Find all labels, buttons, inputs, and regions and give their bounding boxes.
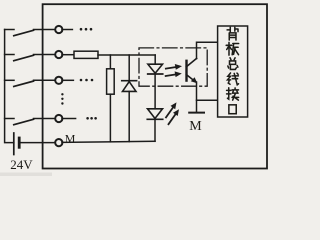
bottom return bus wire	[62, 141, 155, 142]
wire battery to M terminal	[19, 142, 54, 144]
battery 24V long plate	[13, 133, 15, 155]
battery 24V short plate	[18, 138, 21, 147]
diode D1 cathode bar	[122, 80, 137, 82]
indicator LED triangle	[148, 109, 163, 119]
wire S2 to terminal	[34, 54, 55, 56]
indicator emission arrow 2	[169, 109, 180, 124]
wire R1 to optocoupler	[98, 54, 155, 56]
wire row3 stub right	[62, 79, 73, 81]
diode D1 top lead	[128, 55, 130, 80]
svg-text:M: M	[65, 132, 76, 146]
wire row4 stub right	[62, 118, 76, 120]
left supply bus	[5, 30, 14, 143]
phototransistor emitter diagonal with arrow	[186, 75, 197, 84]
wire S4 to terminal	[34, 118, 55, 120]
resistor R2 (vertical) top lead	[109, 55, 111, 69]
wire terminal to resistor R1	[62, 54, 74, 56]
opto emission arrow 2	[166, 71, 182, 77]
glyph 背	[227, 27, 238, 40]
terminal circle row4	[55, 115, 62, 122]
emitter lead down	[196, 82, 198, 112]
wire S1 to terminal	[34, 29, 55, 31]
resistor R2 bottom lead	[109, 94, 111, 142]
terminal circle row3	[55, 77, 62, 84]
opto LED triangle	[148, 64, 163, 73]
backplane interface box	[218, 26, 248, 117]
terminal circle row2	[55, 51, 62, 58]
indicator LED cathode bar	[147, 118, 162, 120]
wire S3 to terminal	[34, 79, 55, 81]
svg-text:24V: 24V	[10, 157, 33, 172]
switch S3 blade	[14, 81, 34, 86]
wire emitter branch to interface box	[197, 99, 218, 101]
indicator LED bottom lead	[154, 119, 156, 141]
opto LED anode lead	[154, 55, 156, 64]
opto emission arrow 1	[166, 64, 182, 70]
switch S4 blade	[14, 119, 34, 124]
module border rectangle	[43, 4, 267, 168]
optocoupler dash-dot box	[139, 48, 207, 86]
indicator emission arrow 1	[166, 102, 177, 117]
ellipsis dots row1	[80, 28, 93, 31]
terminal circle row1	[55, 26, 62, 33]
svg-text:M: M	[189, 119, 202, 134]
switch S3 stub	[5, 79, 14, 81]
switch S1 blade	[14, 30, 34, 35]
phototransistor collector diagonal	[186, 58, 196, 66]
switch S2 blade	[14, 55, 34, 60]
glyph 接	[227, 88, 239, 100]
glyph 总	[228, 58, 238, 70]
glyph 板	[226, 42, 238, 55]
diode D1 bottom lead	[128, 91, 130, 141]
M terminal bar (signal ground)	[189, 112, 204, 114]
switch S2 stub	[5, 54, 14, 56]
vertical ellipsis between row3 and row4	[61, 93, 63, 105]
opto LED cathode bar	[148, 73, 163, 75]
opto LED cathode lead down	[154, 74, 156, 109]
resistor R2 (vertical)	[107, 69, 115, 94]
ellipsis dots row4	[86, 117, 97, 120]
interface box text 背板总线接口 (hand-drawn glyphs)	[226, 27, 238, 113]
switch S4 stub	[5, 118, 14, 120]
collector lead up	[197, 42, 218, 58]
terminal circle M	[55, 139, 62, 146]
switch S1 stub	[5, 29, 14, 31]
glyph 线	[227, 73, 238, 85]
wire row1 stub right	[62, 29, 72, 31]
resistor R1 (series input)	[74, 51, 98, 58]
phototransistor Q1 base bar	[185, 61, 187, 81]
diode D1 triangle	[123, 82, 137, 92]
ellipsis dots row3	[80, 79, 94, 82]
glyph 口	[229, 105, 236, 114]
